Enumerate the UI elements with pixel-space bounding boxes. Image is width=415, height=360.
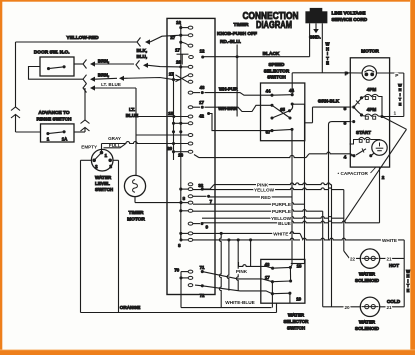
svg-text:2: 2 <box>382 175 385 180</box>
svg-text:LINE VOLTAGE: LINE VOLTAGE <box>332 11 366 16</box>
svg-text:GRAY: GRAY <box>108 136 121 141</box>
svg-text:ADVANCE TO: ADVANCE TO <box>38 110 70 116</box>
svg-text:42: 42 <box>199 114 204 119</box>
svg-text:RD.-BLU.: RD.-BLU. <box>220 39 241 45</box>
svg-text:COLD: COLD <box>387 299 401 304</box>
svg-text:26: 26 <box>176 59 181 64</box>
svg-text:17: 17 <box>199 100 204 105</box>
svg-text:15: 15 <box>168 111 173 116</box>
svg-text:ORANGE: ORANGE <box>120 305 141 310</box>
svg-text:BLACK: BLACK <box>263 51 280 57</box>
svg-text:WATER: WATER <box>288 313 305 318</box>
svg-text:PURPLE: PURPLE <box>272 209 291 214</box>
svg-text:16: 16 <box>176 20 181 25</box>
svg-text:4: 4 <box>344 155 347 161</box>
svg-text:4PM: 4PM <box>367 87 377 92</box>
svg-text:SELECTOR: SELECTOR <box>264 68 290 73</box>
svg-text:SOLENOID: SOLENOID <box>355 326 380 331</box>
svg-text:LT. BLUE: LT. BLUE <box>101 82 121 87</box>
svg-text:E: E <box>326 61 329 66</box>
svg-text:SPEED: SPEED <box>269 62 286 67</box>
svg-text:71: 71 <box>200 265 205 270</box>
svg-text:70: 70 <box>174 267 179 272</box>
svg-text:RINSE SWITCH: RINSE SWITCH <box>37 116 72 122</box>
svg-text:20: 20 <box>167 146 172 151</box>
svg-text:TIMER: TIMER <box>129 210 144 216</box>
svg-text:RED: RED <box>261 195 272 200</box>
svg-text:E: E <box>399 101 402 106</box>
svg-text:MOTOR: MOTOR <box>127 217 145 223</box>
svg-text:SWITCH: SWITCH <box>287 326 306 331</box>
svg-text:SWITCH: SWITCH <box>267 75 286 80</box>
svg-text:27: 27 <box>170 35 175 40</box>
svg-text:WATER: WATER <box>95 175 112 180</box>
svg-text:WHITE-BLUE: WHITE-BLUE <box>225 300 254 305</box>
svg-text:LT.: LT. <box>129 107 135 112</box>
svg-text:• CAPACITOR: • CAPACITOR <box>338 171 369 176</box>
svg-text:4PM: 4PM <box>367 107 377 112</box>
svg-text:BRN,: BRN, <box>98 58 109 63</box>
svg-text:27: 27 <box>169 71 174 76</box>
svg-text:PINK: PINK <box>236 269 248 274</box>
svg-text:19: 19 <box>296 296 301 301</box>
svg-text:TIMER: TIMER <box>234 22 249 28</box>
svg-text:GRN-BLK: GRN-BLK <box>318 99 340 104</box>
svg-text:43: 43 <box>200 85 205 90</box>
svg-text:E: E <box>407 288 410 293</box>
svg-text:17: 17 <box>265 275 270 280</box>
svg-text:DIAGRAM: DIAGRAM <box>256 20 292 31</box>
svg-text:LEVEL: LEVEL <box>95 181 110 186</box>
svg-text:YELLOW-RED: YELLOW-RED <box>66 35 99 41</box>
svg-text:START: START <box>356 130 371 135</box>
svg-text:WATER: WATER <box>359 272 376 277</box>
svg-text:43: 43 <box>265 262 270 267</box>
svg-text:HOT: HOT <box>389 263 399 268</box>
svg-text:72: 72 <box>200 293 205 298</box>
svg-text:SWITCH: SWITCH <box>95 187 114 192</box>
svg-text:21: 21 <box>386 305 392 310</box>
svg-text:YELLOW: YELLOW <box>254 188 275 193</box>
svg-text:21: 21 <box>386 257 392 262</box>
svg-text:BLUE: BLUE <box>278 221 291 226</box>
svg-text:GND.: GND. <box>309 34 321 39</box>
svg-text:32: 32 <box>198 183 203 188</box>
svg-text:5: 5 <box>344 106 347 112</box>
svg-text:44: 44 <box>266 88 271 93</box>
svg-text:BRN,: BRN, <box>98 73 109 78</box>
svg-text:MOTOR: MOTOR <box>361 49 379 55</box>
svg-text:1A: 1A <box>62 137 68 142</box>
svg-text:KNOB-PUSH OFF: KNOB-PUSH OFF <box>217 31 257 37</box>
svg-text:22: 22 <box>350 257 356 262</box>
svg-text:SERVICE CORD: SERVICE CORD <box>332 17 368 22</box>
svg-text:3: 3 <box>344 121 347 127</box>
svg-text:20: 20 <box>344 305 350 310</box>
svg-text:PURPLE: PURPLE <box>272 202 291 207</box>
svg-text:18: 18 <box>297 263 302 268</box>
svg-text:WATER: WATER <box>359 320 376 325</box>
svg-text:26: 26 <box>178 152 183 157</box>
svg-text:WH-PUR: WH-PUR <box>219 87 239 92</box>
svg-text:65: 65 <box>280 107 285 112</box>
svg-text:WHITE: WHITE <box>382 238 397 243</box>
svg-text:SOLENOID: SOLENOID <box>355 278 380 283</box>
svg-text:DOOR SW. N.O.: DOOR SW. N.O. <box>34 49 70 55</box>
svg-text:1: 1 <box>393 110 396 116</box>
svg-text:17: 17 <box>175 48 180 53</box>
svg-text:EMPTY: EMPTY <box>81 144 97 149</box>
svg-text:WHITE: WHITE <box>273 231 288 236</box>
svg-text:SELECTOR: SELECTOR <box>284 319 310 324</box>
svg-text:BLK,: BLK, <box>136 48 147 53</box>
svg-text:12: 12 <box>200 49 205 54</box>
svg-text:BLU,: BLU, <box>136 54 147 59</box>
